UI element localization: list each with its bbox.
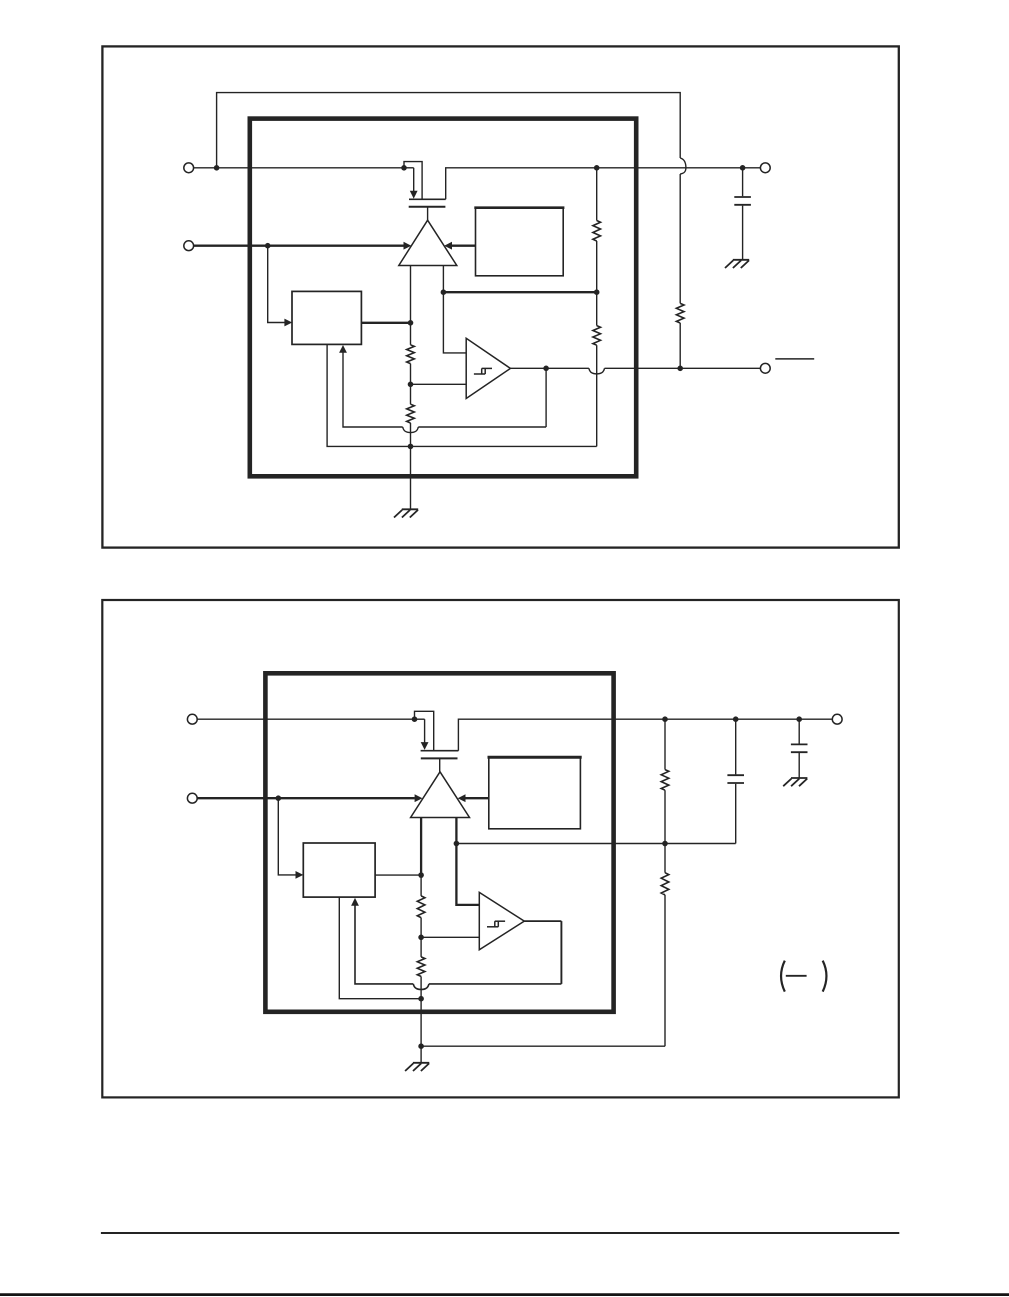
node junction comparator tap (bottom) <box>418 935 424 941</box>
wire divider mid 2 <box>410 384 412 404</box>
overline of erased signal name <box>775 358 814 360</box>
node junction ground node <box>408 444 414 450</box>
comparator A4 (with hysteresis, bottom) <box>479 892 524 949</box>
node junction C1 <box>740 165 746 171</box>
ground (C1) <box>725 260 749 268</box>
capacitor C3 (compensation) <box>727 775 744 783</box>
node junction compensation node <box>454 841 460 847</box>
node junction VIN/bypass <box>214 165 220 171</box>
wire input 2 drop to logic (bottom) <box>278 798 303 879</box>
wire Q1 drain to VOUT rail <box>446 168 761 200</box>
wire Q1 gate bar to error amp <box>427 207 429 221</box>
ground (main, bottom) <box>405 1063 429 1071</box>
wire Q1 gate drive with arrow <box>404 168 418 199</box>
wire reference to error amp (bold) <box>444 242 475 250</box>
hysteresis symbol A2 <box>474 368 492 374</box>
capacitor C2 lead <box>798 719 800 743</box>
terminal VIN (bottom) <box>187 714 197 724</box>
block U2 (voltage reference) <box>474 208 564 276</box>
wire to ground junction <box>420 999 422 1046</box>
wire A2 feedback down <box>545 368 547 427</box>
wire C2 to ground <box>798 753 800 778</box>
node junction divider/U3 <box>408 320 414 326</box>
wire input 2 drop to logic block <box>268 246 293 327</box>
wire C3 lower lead <box>735 784 737 844</box>
wire A4 feedback left <box>429 983 562 985</box>
wire bypass down to resistor R4 <box>679 174 681 303</box>
wire input 2 to error amp bold (bottom) <box>197 794 422 802</box>
wire divider mid 2 (bottom) <box>420 937 422 957</box>
node junction Q1 source <box>401 165 407 171</box>
capacitor C2 (output cap) <box>791 744 808 752</box>
package note text (erased) <box>781 961 826 992</box>
node junction input 2 <box>265 243 271 249</box>
resistor R7 (divider lower, bottom) <box>417 957 425 977</box>
resistor R3b (chain lower) <box>593 326 601 346</box>
wire chain to VOUT rail (bottom) <box>664 719 666 769</box>
resistor R6 (divider upper, bottom) <box>417 896 425 918</box>
wire Q2 source step <box>415 711 434 750</box>
wire Q2 gate bar to error amp <box>439 758 441 771</box>
wire comp node to C3 <box>665 843 736 845</box>
node junction logic/ground link <box>418 996 424 1002</box>
wire error amp right pin <box>442 266 444 293</box>
node junction C3 top <box>733 716 739 722</box>
wire VIN bypass over IC (top) <box>217 93 681 168</box>
wire feedback node line (bold) <box>443 291 596 293</box>
capacitor C1 <box>734 197 751 205</box>
wire error amp left pin <box>410 266 412 323</box>
wire chain to VOUT rail <box>596 168 598 221</box>
node junction feedback node <box>441 289 447 295</box>
node junction comp/R5 chain <box>662 841 668 847</box>
wire hop (bypass crosses VOUT rail) <box>680 158 686 174</box>
wire feedback to U3 (arrow up) <box>339 345 403 427</box>
figure frame (bottom application circuit) <box>102 600 899 1097</box>
wire Q1 source step <box>404 162 422 200</box>
wire VIN rail (bottom) <box>197 718 414 720</box>
node junction comparator tap <box>408 382 414 388</box>
ground (main, top) <box>394 509 418 517</box>
wire chain mid <box>596 292 598 325</box>
wire divider upper lead (bottom) <box>420 875 422 896</box>
wire output line to terminal <box>605 367 761 369</box>
terminal VSS/ADJ input (top) <box>184 241 194 251</box>
wire R5 chain vertical <box>664 895 666 1046</box>
resistor R2 (divider lower) <box>407 404 415 423</box>
wire ground lead (top) <box>410 446 412 509</box>
wire chain mid (bottom) <box>664 844 666 873</box>
wire ground line to R5 chain <box>421 1045 665 1047</box>
resistor R4 (VIN to output-sense node) <box>676 303 684 323</box>
wire Q2 drain to VOUT rail (bottom) <box>458 719 832 751</box>
node junction feedback/divider chain <box>594 289 600 295</box>
transistor Q2 channel bar <box>421 750 459 752</box>
IC outline U5 (regulator, bottom) <box>265 673 613 1012</box>
wire U7 bottom pin to ground link <box>339 897 421 999</box>
transistor Q2 gate plate <box>421 757 458 759</box>
wire hop (output over divider chain) <box>589 368 605 374</box>
wire VIN rail to Q1 source node <box>194 167 404 169</box>
node junction C2 top <box>796 716 802 722</box>
wire right pin down to comparator + <box>443 292 466 353</box>
terminal VOUT (top) <box>760 163 770 173</box>
node junction output/R4 <box>677 366 683 372</box>
wire C3 upper lead <box>735 719 737 774</box>
wire divider to ground node (bottom) <box>420 976 422 998</box>
comparator A2 (with hysteresis) <box>466 338 510 398</box>
terminal VIN (top) <box>184 163 194 173</box>
wire R4 to output node <box>679 323 681 368</box>
op-amp A3 (error amplifier, bottom) <box>411 772 470 818</box>
figure frame (top application circuit) <box>102 46 898 547</box>
capacitor C1 lead <box>742 168 744 196</box>
wire chain upper (bottom) <box>664 790 666 843</box>
wire U3 bottom pin to chain <box>327 344 410 446</box>
node junction divider top <box>594 165 600 171</box>
resistor R3a (chain upper) <box>593 221 601 242</box>
wire U3 output to divider (bold) <box>361 322 410 324</box>
wire tap to comparator - <box>411 383 467 385</box>
wire A4 output <box>524 920 561 922</box>
node junction R5 top <box>662 716 668 722</box>
wire C1 to ground <box>742 206 744 260</box>
wire chain upper lead <box>596 241 598 292</box>
IC outline U1 (regulator, top) <box>250 119 636 477</box>
resistor R5b (chain lower, bottom) <box>661 873 669 895</box>
wire input 2 to error amp (bold) <box>194 242 412 250</box>
resistor R1 (divider upper) <box>407 345 415 364</box>
wire feedback to U7 (arrow up, bottom) <box>351 898 413 984</box>
block U7 (control logic, bottom) <box>303 843 375 897</box>
wire hop (feedback crosses divider, bottom) <box>413 984 429 990</box>
wire Q2 gate drive with arrow <box>415 719 429 750</box>
wire reference to error amp bold (bottom) <box>458 794 489 802</box>
wire hop (feedback crosses divider) <box>403 427 419 433</box>
wire compensation node line <box>456 843 665 845</box>
terminal output flag (top) <box>760 363 770 373</box>
footer rule <box>101 1232 899 1234</box>
wire comp node to comparator + (bold) <box>456 844 479 905</box>
block U6 (voltage reference, bottom) <box>488 757 582 829</box>
node junction ground (bottom) <box>418 1043 424 1049</box>
wire ground lead (bottom) <box>420 1046 422 1062</box>
wire U7 to divider <box>375 874 421 876</box>
wire chain vertical <box>596 345 598 446</box>
wire A4 output down <box>560 921 562 984</box>
terminal ADJ input (bottom) <box>187 793 197 803</box>
wire divider mid <box>410 364 412 385</box>
wire divider upper lead <box>410 323 412 345</box>
wire A2 feedback left <box>418 426 546 428</box>
terminal VOUT (bottom) <box>832 714 842 724</box>
wire chain bottom link <box>411 445 597 447</box>
node junction A2 output <box>543 366 549 372</box>
block U3 (control logic) <box>292 291 361 344</box>
transistor Q1 channel bar <box>409 198 446 200</box>
wire error amp left pin bold (bottom) <box>420 818 422 876</box>
transistor Q1 gate plate <box>409 206 446 208</box>
wire divider to ground node <box>410 423 412 446</box>
wire A2 output <box>510 367 589 369</box>
page bottom dashed line <box>0 1293 1009 1296</box>
wire tap to comparator (bottom) <box>421 936 479 938</box>
hysteresis symbol A4 <box>487 921 505 927</box>
wire divider mid (bottom) <box>420 918 422 938</box>
node junction input 2 (bottom) <box>276 795 282 801</box>
wire error amp right pin bold (bottom) <box>455 818 457 844</box>
node junction Q2 source <box>412 716 418 722</box>
ground (C2) <box>783 778 807 786</box>
op-amp A1 (error amplifier) <box>399 220 457 265</box>
node junction divider/U7 <box>418 872 424 878</box>
resistor R5a (chain upper, bottom) <box>661 770 669 791</box>
